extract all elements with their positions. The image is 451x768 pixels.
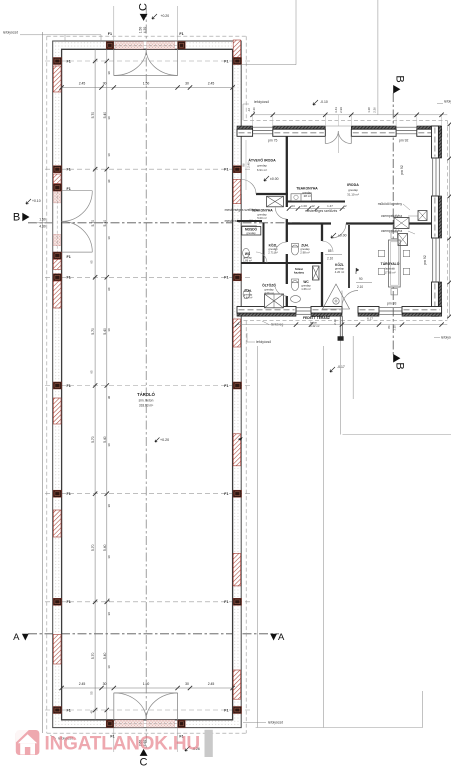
svg-text:30: 30 (107, 71, 111, 75)
svg-text:2.45: 2.45 (79, 682, 86, 686)
svg-text:1.66 m²: 1.66 m² (301, 287, 311, 291)
pilaster bottom door right (178, 720, 185, 727)
hall bottom double door (114, 693, 178, 752)
svg-text:65: 65 (107, 598, 111, 602)
office right wall block (438, 126, 441, 158)
svg-text:F1: F1 (224, 168, 228, 172)
svg-text:6.17: 6.17 (367, 317, 373, 321)
meeting table (389, 240, 401, 287)
svg-text:4.30: 4.30 (39, 225, 46, 229)
top door threshold (115, 42, 143, 49)
svg-text:F1: F1 (67, 187, 71, 191)
svg-text:F1: F1 (224, 59, 228, 63)
svg-text:WC: WC (245, 252, 251, 256)
svg-text:2.10: 2.10 (327, 257, 333, 261)
section line B (vertical, through office) (392, 93, 394, 356)
level mark +0.20 (238, 436, 243, 441)
svg-text:30: 30 (107, 116, 111, 120)
partition V5 (348, 225, 350, 288)
svg-text:pm 92: pm 92 (423, 255, 427, 265)
pilaster right (233, 490, 241, 497)
triangle ramp (323, 284, 350, 309)
svg-text:-0.10: -0.10 (320, 100, 328, 104)
kitchen counter (291, 194, 312, 201)
svg-text:sim. beton: sim. beton (139, 399, 154, 403)
svg-text:1.50: 1.50 (143, 82, 150, 86)
wall hatch right (233, 179, 240, 203)
svg-text:lefolyócső: lefolyócső (444, 100, 451, 104)
partition V0 (263, 223, 265, 264)
inner vertical dim chains (94, 49, 96, 720)
office bottom window 2 (379, 308, 402, 315)
svg-text:-16: -16 (247, 108, 251, 112)
svg-text:5.00 m²: 5.00 m² (257, 216, 267, 220)
svg-text:30: 30 (107, 236, 111, 240)
svg-text:pm 93: pm 93 (387, 302, 397, 306)
partition W2 (287, 201, 345, 203)
svg-text:.98 m²: .98 m² (303, 194, 311, 198)
hall top double door (114, 6, 178, 76)
office top wall block (237, 126, 253, 129)
svg-text:5.70: 5.70 (91, 328, 95, 335)
svg-text:318.63 m²: 318.63 m² (139, 404, 153, 408)
pilaster top door right (178, 42, 185, 49)
svg-text:B: B (394, 362, 406, 369)
svg-text:2.45: 2.45 (79, 82, 86, 86)
outer dimension line left (42, 32, 44, 733)
pilaster left (53, 707, 61, 714)
svg-text:F1: F1 (224, 708, 228, 712)
svg-text:F1: F1 (179, 32, 183, 36)
X chimney shaft kazan (313, 266, 320, 280)
office right window 2 (433, 238, 440, 282)
door jamb lines (53, 41, 178, 728)
svg-text:lefolyócső: lefolyócső (268, 721, 283, 725)
sinks mosdo (243, 227, 249, 233)
svg-text:65: 65 (90, 260, 94, 264)
svg-text:1.47: 1.47 (327, 204, 333, 208)
svg-text:5.70: 5.70 (91, 436, 95, 443)
office right window 1 (433, 158, 440, 196)
svg-text:5.70: 5.70 (91, 220, 95, 227)
small dims texture (90, 116, 112, 714)
svg-text:F1: F1 (67, 600, 71, 604)
svg-text:ÁTVEVŐ IRODA: ÁTVEVŐ IRODA (248, 158, 276, 163)
svg-text:mesterséges szellőzés: mesterséges szellőzés (305, 209, 338, 213)
section marker A right (270, 634, 277, 641)
door arc KOZL2 (332, 224, 347, 239)
svg-text:30: 30 (107, 153, 111, 157)
left door threshold (54, 191, 61, 203)
svg-text:2.10: 2.10 (357, 285, 363, 289)
section marker C top (140, 14, 148, 21)
svg-text:F1: F1 (67, 59, 71, 63)
svg-text:+0.20: +0.20 (161, 14, 170, 18)
right side dim line (449, 124, 451, 316)
svg-text:F1: F1 (224, 492, 228, 496)
svg-text:3.43: 3.43 (334, 107, 338, 113)
office top dims (251, 114, 447, 116)
svg-text:F1: F1 (67, 168, 71, 172)
svg-text:greslap: greslap (257, 164, 267, 168)
partition V1 (main vertical) (286, 136, 288, 307)
office top wall block (273, 126, 326, 129)
svg-text:2.71 m²: 2.71 m² (268, 251, 278, 255)
terrace door arc (342, 291, 358, 307)
svg-text:90: 90 (359, 277, 363, 281)
office bottom window 1 (296, 308, 311, 315)
svg-text:64: 64 (291, 204, 295, 208)
wall hatch left (53, 635, 61, 665)
svg-text:5.40: 5.40 (103, 652, 107, 659)
svg-text:lefolyócső: lefolyócső (254, 100, 269, 104)
hall top door opening (114, 41, 178, 50)
X shower oltozo (265, 294, 284, 308)
svg-text:30: 30 (185, 82, 189, 86)
svg-text:B: B (394, 75, 406, 82)
svg-text:96: 96 (242, 163, 246, 167)
svg-text:INGATLANOK.HU: INGATLANOK.HU (45, 734, 200, 755)
svg-text:30: 30 (103, 682, 107, 686)
office bottom wall block (402, 313, 442, 316)
pilaster right (233, 166, 241, 173)
svg-text:2.36: 2.36 (252, 107, 256, 113)
washing box (242, 227, 261, 236)
pilaster door bottom (53, 252, 61, 259)
svg-text:+0.20: +0.20 (160, 438, 169, 442)
office bottom wall block (358, 313, 379, 316)
svg-text:85: 85 (328, 249, 332, 253)
svg-text:A: A (13, 632, 20, 643)
svg-text:1.50: 1.50 (39, 218, 46, 222)
section line B (horizontal, through left door) (28, 222, 300, 224)
svg-text:1.00: 1.00 (301, 204, 307, 208)
top dimension chain (62, 87, 233, 89)
svg-text:greslap: greslap (246, 231, 256, 235)
ZUH left basin (243, 289, 250, 298)
hall bottom door opening (114, 719, 178, 728)
pilaster left (53, 382, 61, 389)
X shaft teakonyha (267, 196, 284, 207)
svg-text:B: B (13, 211, 20, 223)
pilaster bottom door left (106, 720, 113, 727)
svg-text:1.50: 1.50 (143, 682, 150, 686)
svg-text:6.91 m²: 6.91 m² (257, 168, 267, 172)
svg-text:2.36: 2.36 (373, 107, 377, 113)
wall hatch left (53, 259, 61, 269)
chimney in wall (394, 218, 409, 229)
svg-text:C: C (140, 757, 148, 768)
svg-text:ZUH.: ZUH. (244, 289, 252, 293)
partition IRODA/TARGYALO (287, 222, 432, 224)
svg-text:kazány: kazány (294, 271, 304, 275)
wall hatch right (233, 553, 240, 586)
extension lines above office wall (253, 115, 442, 126)
svg-text:5.70: 5.70 (91, 112, 95, 119)
office bottom wall block (237, 313, 296, 316)
partition W3 (237, 220, 262, 222)
svg-text:2.45: 2.45 (208, 682, 215, 686)
partition W1 (atvevo/teakonyha) (256, 193, 288, 195)
bottom door threshold (115, 720, 143, 727)
pilaster left (53, 274, 61, 281)
office top wall block (417, 126, 442, 129)
svg-text:30: 30 (185, 682, 189, 686)
svg-text:5.70: 5.70 (91, 544, 95, 551)
wall hatch right (233, 434, 240, 466)
door ZUH arc (322, 241, 333, 252)
grey box (205, 730, 213, 757)
svg-text:30: 30 (107, 396, 111, 400)
hall left door opening (52, 191, 62, 252)
svg-text:lefolyócső: lefolyócső (3, 31, 18, 35)
office top window 2 (396, 127, 417, 134)
svg-text:F1: F1 (67, 255, 71, 259)
svg-text:2.40: 2.40 (247, 162, 251, 168)
section line A (horizontal) (28, 633, 279, 635)
partition W4 (241, 262, 322, 264)
svg-text:F1: F1 (67, 492, 71, 496)
svg-text:lefolyócső: lefolyócső (441, 336, 451, 340)
svg-text:IRODA: IRODA (347, 183, 359, 187)
ticks and bay dimensions (91, 59, 111, 712)
office top window 1 (253, 127, 273, 134)
svg-text:C: C (138, 3, 150, 11)
watermark INGATLANOK.HU (16, 730, 200, 755)
partition V4 (321, 224, 323, 308)
wall hatch left (53, 66, 61, 92)
svg-text:greslap: greslap (348, 188, 358, 192)
svg-text:lefolyócső: lefolyócső (256, 340, 271, 344)
svg-text:2.10: 2.10 (333, 319, 337, 325)
svg-text:1.86 m²: 1.86 m² (243, 259, 252, 263)
svg-text:F1: F1 (108, 32, 112, 36)
section line C (vertical centre) (145, 8, 147, 748)
svg-text:2.99: 2.99 (339, 107, 343, 113)
svg-text:2.98 m²: 2.98 m² (300, 251, 310, 255)
door arc atvevo->teakonyha (242, 180, 257, 195)
svg-text:F1: F1 (67, 276, 71, 280)
office bottom wall block (311, 313, 342, 316)
svg-text:30: 30 (103, 82, 107, 86)
hall outer wall outline (53, 41, 242, 728)
pilaster right (233, 274, 241, 281)
svg-text:TÁROLÓ: TÁROLÓ (137, 392, 155, 397)
svg-text:86: 86 (387, 325, 391, 329)
hall inner wall outline (62, 49, 233, 720)
wall hatch left (53, 398, 61, 424)
wall hatch right (233, 670, 240, 699)
svg-text:4.06 m²: 4.06 m² (264, 291, 274, 295)
svg-text:F1: F1 (67, 708, 71, 712)
terrace posts (339, 316, 341, 340)
svg-text:5.40: 5.40 (103, 220, 107, 227)
svg-text:csempekályha: csempekályha (381, 214, 402, 218)
svg-text:1.38: 1.38 (367, 107, 371, 113)
WC bowl 1 (291, 245, 298, 255)
svg-text:30: 30 (107, 504, 111, 508)
pilaster left (53, 58, 61, 65)
svg-text:31.10 m²: 31.10 m² (347, 193, 359, 197)
office top wall block (351, 126, 396, 129)
svg-text:±0.00: ±0.00 (270, 177, 279, 181)
svg-text:A: A (278, 632, 285, 643)
office bottom dim line (237, 324, 447, 326)
svg-text:12: 12 (311, 204, 315, 208)
svg-text:5.40: 5.40 (103, 436, 107, 443)
section marker B office bottom (393, 354, 400, 363)
chairs (378, 232, 409, 295)
svg-text:30: 30 (107, 179, 111, 183)
svg-text:-0.17: -0.17 (337, 365, 345, 369)
pilaster left (53, 166, 61, 173)
pilaster right (233, 382, 241, 389)
svg-text:5.70: 5.70 (91, 652, 95, 659)
svg-text:30: 30 (107, 443, 111, 447)
svg-text:+0.10: +0.10 (32, 199, 41, 203)
svg-text:55: 55 (90, 691, 94, 695)
svg-text:F1: F1 (224, 276, 228, 280)
wall hatch left (53, 510, 61, 537)
door flag TARGYALO (356, 268, 359, 274)
svg-text:30: 30 (107, 328, 111, 332)
pilaster right (233, 707, 241, 714)
hall outer wall band with plaster dots (53, 41, 242, 49)
svg-text:5.40: 5.40 (103, 544, 107, 551)
office entrance double door (325, 126, 351, 153)
svg-text:4.30: 4.30 (143, 27, 147, 34)
svg-text:±0.00: ±0.00 (338, 234, 347, 238)
svg-text:17.96 m²: 17.96 m² (384, 271, 395, 275)
svg-text:30: 30 (107, 287, 111, 291)
pilaster top door left (106, 42, 113, 49)
svg-text:pm 92: pm 92 (399, 139, 409, 143)
section marker C bottom (140, 749, 148, 756)
atvevo room dim (245, 140, 247, 190)
svg-text:működő kémény: működő kémény (378, 202, 403, 206)
pilaster left (53, 598, 61, 605)
svg-text:TÁRGYALÓ: TÁRGYALÓ (381, 261, 400, 266)
interior door arcs office (275, 208, 287, 220)
svg-text:30: 30 (107, 555, 111, 559)
svg-text:csempekályha: csempekályha (381, 229, 402, 233)
svg-text:F1: F1 (224, 384, 228, 388)
WC left bowl (243, 248, 250, 257)
pilaster right (233, 598, 241, 605)
hall left double door (53, 191, 93, 252)
svg-text:2.45: 2.45 (208, 82, 215, 86)
WC bowl 2 (291, 281, 298, 291)
section marker B office top (393, 85, 400, 94)
pilaster door top (53, 184, 61, 191)
pilaster right (233, 58, 241, 65)
wall hatch right (233, 40, 240, 58)
wall hatch left (53, 174, 61, 184)
wall hatch left (53, 281, 61, 308)
basin 3 (291, 296, 301, 303)
svg-text:FEDETT TERASZ: FEDETT TERASZ (303, 316, 330, 320)
svg-text:pm 92: pm 92 (400, 165, 404, 175)
office right wall block (438, 196, 441, 238)
grid row dashed lines (45, 61, 250, 710)
svg-text:30: 30 (107, 665, 111, 669)
office right wall block (438, 282, 441, 316)
bottom dimension chain (62, 687, 233, 689)
svg-text:4.20 m²: 4.20 m² (335, 270, 345, 274)
svg-text:pm 75: pm 75 (268, 139, 278, 143)
svg-text:40: 40 (90, 710, 94, 714)
svg-text:30: 30 (107, 612, 111, 616)
small dims teakonyha row (287, 204, 347, 211)
wall hatch right (233, 319, 240, 347)
pilaster left (53, 490, 61, 497)
svg-text:65: 65 (90, 370, 94, 374)
svg-text:1.15: 1.15 (393, 325, 397, 331)
svg-text:F1: F1 (224, 600, 228, 604)
svg-text:F1: F1 (67, 384, 71, 388)
svg-text:1.44 m²: 1.44 m² (244, 296, 253, 300)
yard paving line left strip (256, 336, 451, 728)
